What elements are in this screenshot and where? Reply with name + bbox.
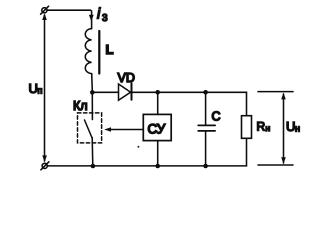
wire inductor bottom to node xyxy=(91,74,94,91)
svg-text:3: 3 xyxy=(102,13,108,24)
svg-text:i: i xyxy=(97,7,101,23)
measurement tick top (Uн) xyxy=(258,91,293,93)
svg-text:п: п xyxy=(38,86,43,96)
svg-text:н: н xyxy=(266,123,271,133)
node A (junction dot, inductor/diode/switch) xyxy=(90,90,95,95)
svg-text:C: C xyxy=(212,110,221,124)
switch blade xyxy=(85,120,92,138)
speckle (scan artifact) xyxy=(137,146,139,148)
measurement arrow Uн (double-headed vertical) xyxy=(281,93,286,164)
wire top rail to resistor corner xyxy=(206,92,247,115)
op-amp? no: control unit box U1 (СУ) xyxy=(143,114,171,140)
svg-text:VD: VD xyxy=(118,71,135,85)
switch fixed contact (top) xyxy=(91,92,93,119)
wire top rail xyxy=(47,10,91,28)
node (bottom, switch) xyxy=(91,164,96,169)
switch Кл dashed enclosure xyxy=(78,113,102,143)
wire control line to switch xyxy=(108,129,144,131)
svg-text:н: н xyxy=(295,124,300,134)
wire node B to capacitor node xyxy=(158,91,206,93)
switch bottom contact wire xyxy=(91,138,94,167)
arrow down (bottom of Uп line) xyxy=(42,155,47,162)
terminal X1 (top-left, circle with slash) xyxy=(41,6,49,14)
node B (junction dot after diode) xyxy=(155,90,160,95)
wire node B down to control unit xyxy=(157,92,159,114)
arrow i3 (current direction, down) xyxy=(89,15,94,22)
wire diode to node B xyxy=(132,91,158,93)
measurement tick bottom (Uн) xyxy=(258,164,293,166)
node (bottom, control unit) xyxy=(155,164,160,169)
terminal X2 (bottom-left, circle with slash) xyxy=(41,162,49,170)
inductor L (4 left-bulging arcs) xyxy=(85,29,91,74)
inductor core bar xyxy=(98,31,100,74)
svg-text:L: L xyxy=(106,42,114,57)
arrow up (top of Uп line) xyxy=(42,13,47,20)
bottom rail wire xyxy=(47,138,246,166)
source line Uп (left branch with two arrowheads) xyxy=(44,15,46,161)
svg-text:СУ: СУ xyxy=(148,122,166,137)
svg-text:U: U xyxy=(286,119,295,134)
node (bottom, capacitor) xyxy=(203,164,208,169)
capacitor C1 xyxy=(198,92,215,166)
resistor Rн xyxy=(242,116,252,139)
wire node A to diode xyxy=(92,91,118,93)
svg-text:U: U xyxy=(29,81,38,96)
node C-top (junction dot) xyxy=(203,90,208,95)
svg-text:Кл: Кл xyxy=(73,99,88,113)
wire control unit to bottom rail xyxy=(157,141,159,166)
arrow control (pointing left at switch) xyxy=(104,127,111,132)
svg-text:R: R xyxy=(257,120,266,134)
diode VD xyxy=(119,83,132,100)
